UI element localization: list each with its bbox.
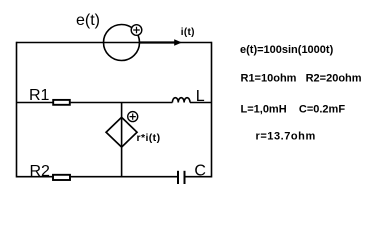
svg-text:R2: R2 bbox=[30, 163, 51, 180]
svg-text:R1: R1 bbox=[29, 87, 50, 104]
svg-text:e(t): e(t) bbox=[76, 12, 100, 29]
dependent source polarity plus bbox=[130, 114, 136, 120]
wire: right vertical bbox=[211, 42, 213, 178]
svg-text:L: L bbox=[196, 88, 205, 105]
source e(t) polarity plus bbox=[133, 27, 140, 34]
svg-text:i(t): i(t) bbox=[181, 27, 195, 38]
svg-text:r=13.7ohm: r=13.7ohm bbox=[256, 131, 316, 143]
dependent source polarity circle bbox=[128, 112, 138, 122]
wire: middle horizontal left segment bbox=[17, 102, 53, 104]
wire: left vertical bbox=[16, 42, 18, 178]
source e(t) polarity circle bbox=[131, 25, 142, 36]
svg-text:e(t)=100sin(1000t): e(t)=100sin(1000t) bbox=[240, 44, 334, 56]
dependent source diamond bbox=[106, 117, 137, 147]
resistor R1 bbox=[53, 100, 70, 105]
wire: top horizontal bbox=[17, 42, 212, 44]
svg-text:r*i(t): r*i(t) bbox=[137, 132, 161, 144]
source e(t) circle U1 bbox=[104, 25, 140, 61]
wire: middle horizontal center segment bbox=[71, 102, 173, 104]
wire: bottom horizontal left segment bbox=[17, 176, 53, 178]
svg-text:L=1,0mH C=0.2mF: L=1,0mH C=0.2mF bbox=[241, 103, 346, 115]
wire: bottom horizontal middle segment bbox=[71, 176, 178, 178]
capacitor C plate right bbox=[184, 171, 186, 184]
current arrow shaft bbox=[140, 41, 176, 43]
svg-text:R1=10ohm R2=20ohm: R1=10ohm R2=20ohm bbox=[241, 73, 362, 85]
wire: middle horizontal right segment bbox=[190, 102, 212, 104]
current arrow head bbox=[174, 39, 182, 46]
capacitor C plate left bbox=[177, 171, 179, 184]
svg-text:C: C bbox=[194, 162, 206, 179]
wire: bottom horizontal right segment bbox=[185, 176, 212, 178]
wire: middle vertical through dependent source bbox=[121, 103, 123, 178]
inductor L bbox=[172, 98, 190, 103]
resistor R2 bbox=[53, 175, 70, 180]
